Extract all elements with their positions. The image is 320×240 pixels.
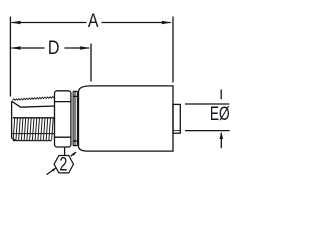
- thread crest zigzag top: [12, 97, 54, 101]
- EO dimension tick top: [220, 90, 222, 100]
- svg-text:A: A: [88, 11, 99, 32]
- balloon tail leader with arrowhead: [47, 168, 56, 175]
- svg-text:EØ: EØ: [210, 104, 230, 125]
- extension line left (thread tip): [9, 17, 11, 97]
- flange top edge: [73, 90, 77, 92]
- thread crest scallops bottom: [13, 140, 52, 141]
- washer line 1: [72, 91, 74, 145]
- nipple (hose tube end): [173, 104, 180, 133]
- thread pitch line: [13, 117, 55, 119]
- arrowhead D right: [80, 46, 90, 50]
- thread root line bottom: [12, 133, 55, 135]
- arrowhead A right: [162, 21, 172, 25]
- hex nut outline: [55, 91, 71, 147]
- washer line 2: [74, 91, 76, 145]
- crimp shell outline: [79, 86, 174, 151]
- balloon leader to hex nut: [64, 148, 66, 156]
- flange right edge: [76, 91, 78, 145]
- nipple inner line: [173, 130, 180, 132]
- thread tip face: [11, 101, 13, 138]
- extension line right (shell end): [172, 17, 174, 83]
- hex flat line upper: [55, 101, 71, 103]
- dimension line A: [11, 22, 86, 24]
- svg-text:2: 2: [59, 154, 67, 176]
- extension line D (hex face): [90, 44, 92, 82]
- hex flat line lower: [55, 136, 71, 138]
- balloon hexagon: [54, 156, 73, 173]
- flange bottom edge: [73, 145, 77, 147]
- thread top chamfer: [12, 101, 21, 107]
- thread root line top: [21, 106, 55, 107]
- svg-text:D: D: [48, 38, 60, 59]
- flange notch top: [73, 95, 77, 97]
- EO dimension arrow bottom: [220, 133, 222, 148]
- EO extension line bottom: [185, 130, 230, 132]
- dimension line D: [11, 47, 44, 49]
- arrowhead D left: [11, 46, 21, 50]
- arrowhead A left: [11, 21, 21, 25]
- balloon leader to shell with arrowhead: [71, 152, 76, 156]
- EO extension line top: [185, 103, 229, 105]
- flange notch bottom: [73, 140, 77, 142]
- thread flank hatching: [13, 118, 53, 139]
- thread bottom chamfer: [12, 138, 16, 140]
